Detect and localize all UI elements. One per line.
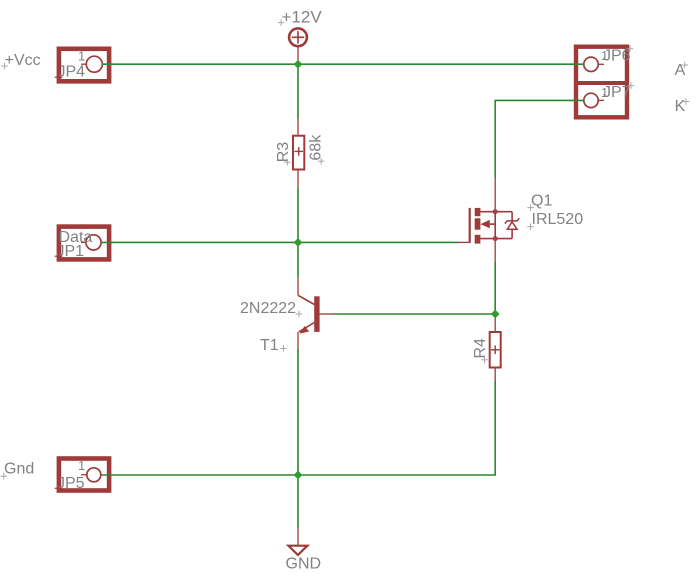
origin cross of Q1: [527, 204, 534, 211]
svg-text:JP1: JP1: [57, 243, 85, 260]
svg-text:JP7: JP7: [603, 84, 631, 101]
wire Data rail JP1 to gate: [102, 241, 459, 243]
emitter diagonal: [299, 323, 314, 332]
svg-text:1: 1: [78, 49, 85, 64]
channel bar bottom: [475, 235, 481, 244]
channel bar top: [475, 208, 481, 216]
origin cross of IRL520: [527, 223, 534, 230]
svg-text:JP6: JP6: [603, 47, 631, 64]
svg-text:GND: GND: [286, 556, 322, 573]
origin cross of JP7: [628, 82, 635, 89]
svg-text:1: 1: [78, 458, 85, 473]
source connection dot: [493, 237, 497, 241]
wire +12V junction to R3 top: [297, 64, 299, 118]
channel bar middle: [475, 218, 481, 229]
origin cross of JP4: [55, 73, 63, 81]
junction at GND rail: [294, 471, 303, 480]
wire R3 bottom to Data junction: [297, 188, 299, 243]
origin cross of T1: [280, 345, 287, 352]
connector JP4: [59, 49, 109, 82]
wire R4 bottom to GND rail corner: [102, 381, 496, 475]
source link: [480, 238, 512, 240]
origin cross of +12V: [278, 19, 285, 26]
power +12V symbol P1: [289, 28, 307, 64]
origin cross of A: [681, 62, 688, 69]
wire Data junction to collector: [297, 242, 299, 277]
drain pin: [494, 178, 496, 212]
source pin: [494, 239, 496, 262]
bulk arrow: [480, 220, 489, 228]
connector JP6 JP7: [576, 47, 627, 118]
transistor T1 2N2222: [298, 277, 333, 349]
connector JP5: [59, 459, 109, 491]
resistor R3: [293, 119, 304, 188]
wire emitter to GND symbol: [297, 349, 299, 528]
svg-text:Q1: Q1: [531, 193, 552, 210]
origin cross of JP5: [55, 485, 63, 493]
origin cross of JP6: [627, 45, 634, 52]
svg-text:+Vcc: +Vcc: [5, 52, 41, 69]
base bar: [314, 296, 319, 332]
origin cross of R3: [284, 159, 291, 166]
resistor R4: [490, 314, 501, 381]
wire JP7 to drain corner: [495, 100, 584, 177]
junction at Data rail: [294, 238, 303, 247]
origin cross of 2N2222: [296, 311, 303, 318]
body diode branch: [511, 212, 513, 221]
svg-text:K: K: [675, 98, 686, 115]
junction at +12V / Vcc rail: [294, 60, 303, 69]
diode triangle: [507, 222, 517, 229]
svg-text:R3: R3: [275, 142, 292, 163]
zener cathode bar: [505, 218, 520, 223]
svg-text:IRL520: IRL520: [532, 211, 584, 228]
svg-text:Gnd: Gnd: [4, 461, 34, 478]
ground symbol: [288, 528, 307, 555]
svg-text:R4: R4: [472, 338, 489, 359]
svg-text:2N2222: 2N2222: [240, 300, 296, 317]
origin cross of 68k: [318, 158, 325, 165]
origin cross of K: [683, 98, 690, 105]
collector pin: [297, 277, 299, 295]
wire source to base junction: [494, 262, 496, 314]
junction at base / R4: [491, 310, 500, 319]
body vertical: [494, 212, 496, 239]
origin cross of R4: [481, 357, 488, 364]
base pin: [320, 313, 333, 315]
connector JP1: [59, 227, 109, 260]
gate bar: [469, 208, 471, 243]
svg-text:JP4: JP4: [58, 64, 86, 81]
svg-text:68k: 68k: [308, 134, 325, 161]
svg-text:JP5: JP5: [57, 475, 85, 492]
wire Vcc rail JP4 to JP6: [102, 63, 585, 65]
origin cross of +Vcc: [1, 63, 8, 70]
drain connection dot: [493, 210, 497, 214]
gate pin: [459, 241, 470, 243]
origin cross of Gnd: [0, 473, 7, 480]
emitter pin: [297, 332, 299, 349]
emitter arrow: [299, 326, 309, 334]
drain link: [480, 211, 512, 213]
mosfet Q1 IRL520: [459, 178, 520, 263]
wire base rail: [333, 313, 495, 315]
svg-text:+12V: +12V: [282, 8, 323, 27]
collector diagonal: [298, 295, 314, 304]
svg-text:T1: T1: [260, 337, 279, 354]
origin cross of JP1: [55, 252, 63, 260]
